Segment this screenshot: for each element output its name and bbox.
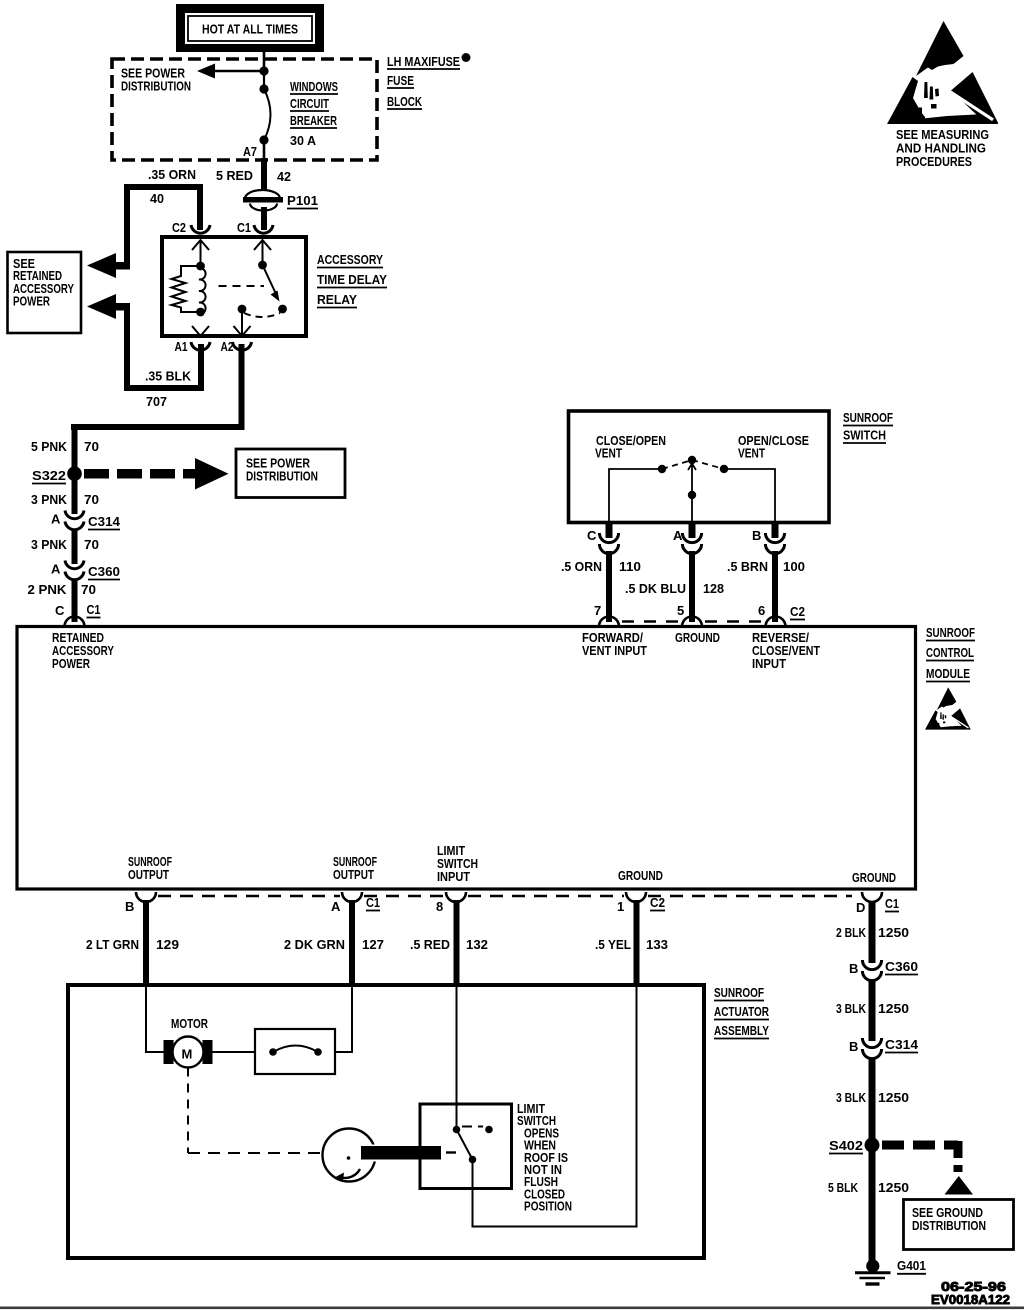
wire clutch to pin A <box>335 987 352 1052</box>
svg-text:7: 7 <box>594 603 601 618</box>
svg-text:1250: 1250 <box>878 1001 909 1016</box>
connector C360 (pink chain) <box>51 561 120 580</box>
svg-text:SWITCH: SWITCH <box>843 428 886 443</box>
fuse block box (dashed) <box>112 59 377 160</box>
svg-text:C2: C2 <box>650 895 665 910</box>
svg-text:C1: C1 <box>885 896 899 911</box>
svg-text:CIRCUIT: CIRCUIT <box>290 96 329 111</box>
sunroof control module box <box>17 627 916 890</box>
svg-text:.35 ORN: .35 ORN <box>148 167 196 182</box>
svg-text:8: 8 <box>436 899 443 914</box>
splice S402 <box>829 1138 880 1154</box>
svg-text:C2: C2 <box>790 604 805 619</box>
module pin 7 <box>594 603 619 627</box>
cam follower bar <box>361 1146 456 1160</box>
wire 3 PNK 70 (C314 to C360) <box>31 530 99 564</box>
svg-text:30 A: 30 A <box>290 133 317 148</box>
see power distribution arrow (top left) <box>121 64 264 94</box>
wire 2 LT GRN 129 <box>86 900 179 987</box>
svg-text:110: 110 <box>619 559 641 574</box>
svg-text:GROUND: GROUND <box>852 870 896 885</box>
svg-text:3 BLK: 3 BLK <box>836 1001 866 1016</box>
HOT AT ALL TIMES box <box>176 4 324 52</box>
module pin D / C1 <box>856 892 899 915</box>
svg-text:127: 127 <box>362 937 384 952</box>
connector C360 (black chain) <box>849 959 918 981</box>
module pin 5 <box>677 603 702 627</box>
sunroof switch box <box>569 411 830 523</box>
connector C314 (pink chain) <box>51 511 121 530</box>
wire P101 to relay C1 <box>261 207 267 230</box>
svg-text:B: B <box>752 528 761 543</box>
connector at switch pin A <box>673 522 702 554</box>
limit switch box <box>420 1104 512 1189</box>
svg-text:C: C <box>587 528 597 543</box>
connector C2 at relay <box>172 220 210 235</box>
svg-text:SUNROOF: SUNROOF <box>843 410 893 425</box>
module pin 8 <box>436 892 466 914</box>
ESD symbol (top right) <box>887 21 998 124</box>
svg-text:70: 70 <box>84 537 99 552</box>
svg-text:5: 5 <box>677 603 684 618</box>
svg-text:5 PNK: 5 PNK <box>31 439 68 454</box>
see retained accessory power box <box>8 252 82 333</box>
svg-text:OUTPUT: OUTPUT <box>333 867 374 882</box>
svg-text:A7: A7 <box>243 144 257 159</box>
connector C314 (black chain) <box>849 1037 919 1059</box>
svg-text:6: 6 <box>758 603 765 618</box>
wire pin B to motor <box>146 987 166 1052</box>
svg-text:C1: C1 <box>87 602 101 617</box>
svg-text:A2: A2 <box>221 339 234 354</box>
svg-text:EV0018A122: EV0018A122 <box>931 1292 1010 1307</box>
svg-text:POWER: POWER <box>52 656 90 671</box>
svg-text:POSITION: POSITION <box>524 1199 572 1214</box>
svg-text:B: B <box>125 899 134 914</box>
windows circuit breaker label <box>290 79 338 148</box>
wire .5 YEL 133 <box>595 900 668 987</box>
svg-text:A: A <box>331 899 341 914</box>
svg-text:BLOCK: BLOCK <box>387 94 422 109</box>
switch rocker contacts <box>658 456 728 521</box>
wire switch C leg <box>609 469 662 521</box>
wire limit switch to pin 1 <box>473 987 637 1227</box>
svg-text:70: 70 <box>84 439 99 454</box>
svg-text:PROCEDURES: PROCEDURES <box>896 154 972 169</box>
connector dashes on module top edge <box>622 620 764 623</box>
module label: retained accessory power <box>52 630 114 671</box>
svg-text:C1: C1 <box>366 895 380 910</box>
wire .35 ORN 40 (relay C2 feed) <box>124 167 203 266</box>
see measuring and handling procedures note <box>896 127 989 169</box>
wire pin 8 to limit switch <box>456 987 458 1130</box>
svg-text:DISTRIBUTION: DISTRIBUTION <box>246 469 318 484</box>
connector at switch pin C <box>587 522 619 554</box>
svg-text:133: 133 <box>646 937 668 952</box>
wire .5 RED 132 <box>410 900 488 987</box>
module label: reverse/close/vent input <box>752 630 820 671</box>
svg-text:SUNROOF: SUNROOF <box>714 985 764 1000</box>
svg-text:VENT: VENT <box>738 446 765 461</box>
svg-text:2 PNK: 2 PNK <box>28 582 68 597</box>
wire 2 BLK 1250 (pin D to C360) <box>836 901 909 963</box>
svg-text:.5 DK BLU: .5 DK BLU <box>625 581 686 596</box>
arrow to retained accessory power (upper) <box>87 253 130 278</box>
svg-text:.5 RED: .5 RED <box>410 937 450 952</box>
splice S322 <box>32 466 82 483</box>
wire 3 BLK 1250 (C314 to S402) <box>836 1057 909 1145</box>
svg-text:DISTRIBUTION: DISTRIBUTION <box>912 1218 986 1233</box>
svg-text:B: B <box>849 961 858 976</box>
wire 3 PNK 70 (S322 to C314) <box>31 474 99 514</box>
svg-text:1: 1 <box>617 899 624 914</box>
svg-text:ACTUATOR: ACTUATOR <box>714 1004 769 1019</box>
see power distribution box (right of S322) <box>236 449 345 498</box>
svg-text:VENT INPUT: VENT INPUT <box>582 643 647 658</box>
svg-text:FUSE: FUSE <box>387 73 414 88</box>
svg-text:INPUT: INPUT <box>752 656 786 671</box>
see ground distribution box <box>904 1200 1014 1250</box>
svg-text:70: 70 <box>84 492 99 507</box>
svg-text:A: A <box>51 562 61 577</box>
svg-text:.5 BRN: .5 BRN <box>727 559 768 574</box>
svg-text:GROUND: GROUND <box>675 630 720 645</box>
svg-text:5 RED: 5 RED <box>216 168 253 183</box>
svg-text:SUNROOF: SUNROOF <box>926 625 975 640</box>
wire .5 DK BLU 128 <box>625 551 724 623</box>
connector at switch pin B <box>752 522 785 554</box>
svg-text:C360: C360 <box>885 959 918 974</box>
mechanical link motor to cam (dashed) <box>188 1068 322 1154</box>
svg-text:GROUND: GROUND <box>618 868 663 883</box>
svg-text:1250: 1250 <box>878 925 909 940</box>
svg-text:B: B <box>849 1039 858 1054</box>
svg-text:C360: C360 <box>88 564 120 579</box>
wire .5 BRN 100 <box>727 551 805 623</box>
svg-text:2 LT GRN: 2 LT GRN <box>86 937 139 952</box>
wire 5 PNK 70 (A2 to S322) <box>31 344 245 474</box>
pass-through connector P101 <box>243 190 318 211</box>
motor M <box>164 1016 213 1068</box>
svg-text:2 BLK: 2 BLK <box>836 925 866 940</box>
module label: sunroof output (pin B) <box>128 854 172 882</box>
clutch switch box <box>255 1029 335 1074</box>
svg-text:WINDOWS: WINDOWS <box>290 79 338 94</box>
cam wheel <box>323 1129 380 1182</box>
svg-text:D: D <box>856 900 865 915</box>
wire .5 ORN 110 <box>561 551 641 623</box>
svg-text:C2: C2 <box>172 220 186 235</box>
svg-text:RELAY: RELAY <box>317 292 357 307</box>
svg-text:3 PNK: 3 PNK <box>31 492 68 507</box>
svg-text:C: C <box>55 603 65 618</box>
dashed link S402 to ground distribution <box>882 1141 973 1195</box>
svg-text:.35 BLK: .35 BLK <box>145 369 192 384</box>
wire 2 PNK 70 (C360 to module) <box>28 580 97 623</box>
relay coil branch (C2-A1) <box>172 240 210 336</box>
arrow to retained accessory power (lower) <box>87 294 130 319</box>
svg-text:C314: C314 <box>88 514 121 529</box>
connector dashes on module bottom edge <box>158 895 852 898</box>
svg-text:INPUT: INPUT <box>437 869 470 884</box>
module label: forward/vent input <box>582 630 647 658</box>
svg-text:POWER: POWER <box>13 294 50 309</box>
svg-text:C314: C314 <box>885 1037 919 1052</box>
svg-text:G401: G401 <box>897 1258 926 1273</box>
connector A2 <box>221 339 252 354</box>
module pin A / C1 <box>331 892 380 914</box>
svg-text:1250: 1250 <box>878 1090 909 1105</box>
sunroof switch label <box>843 410 893 443</box>
svg-text:70: 70 <box>81 582 96 597</box>
svg-text:.5 ORN: .5 ORN <box>561 559 602 574</box>
svg-text:ASSEMBLY: ASSEMBLY <box>714 1023 769 1038</box>
svg-text:129: 129 <box>156 937 179 952</box>
svg-text:MODULE: MODULE <box>926 666 970 681</box>
svg-text:VENT: VENT <box>595 446 622 461</box>
wire motor to clutch switch <box>213 1051 256 1053</box>
circuit breaker A7 (30A) <box>243 66 271 160</box>
LH maxifuse fuse block label <box>387 53 471 109</box>
svg-text:MOTOR: MOTOR <box>171 1016 208 1031</box>
svg-text:OUTPUT: OUTPUT <box>128 867 169 882</box>
svg-text:A: A <box>673 528 683 543</box>
svg-text:100: 100 <box>783 559 805 574</box>
sunroof actuator assembly label <box>714 985 769 1039</box>
svg-text:TIME DELAY: TIME DELAY <box>317 272 387 287</box>
svg-text:40: 40 <box>150 191 164 206</box>
svg-text:3 BLK: 3 BLK <box>836 1090 866 1105</box>
svg-text:C1: C1 <box>237 220 251 235</box>
svg-text:CONTROL: CONTROL <box>926 645 974 660</box>
svg-text:3 PNK: 3 PNK <box>31 537 68 552</box>
svg-text:DISTRIBUTION: DISTRIBUTION <box>121 79 191 94</box>
connector C1 at relay <box>237 220 273 235</box>
svg-text:.5 YEL: .5 YEL <box>595 937 631 952</box>
sunroof control module label <box>926 625 975 682</box>
wire 3 BLK 1250 (C360 to C314) <box>836 979 909 1041</box>
connector A1 <box>175 339 211 354</box>
wire 2 DK GRN 127 <box>284 900 384 987</box>
svg-text:BREAKER: BREAKER <box>290 113 337 128</box>
svg-text:1250: 1250 <box>878 1180 909 1195</box>
svg-text:A: A <box>51 512 61 527</box>
limit switch note text <box>517 1101 572 1214</box>
wire 5 BLK 1250 (S402 to G401) <box>828 1145 909 1261</box>
svg-text:HOT AT ALL TIMES: HOT AT ALL TIMES <box>202 22 298 37</box>
relay switch branch (C1-A2) <box>219 240 287 336</box>
dashed arrow S322 to see power distribution <box>84 458 229 490</box>
module pin 1 / C2 <box>617 892 665 914</box>
module label: sunroof output (pin A) <box>333 854 377 882</box>
svg-text:LH MAXIFUSE: LH MAXIFUSE <box>387 54 460 69</box>
module label: limit switch input <box>437 843 478 884</box>
page bottom rule <box>0 1307 1024 1310</box>
svg-text:132: 132 <box>466 937 488 952</box>
wire 5 RED 42 <box>216 158 291 194</box>
wire .35 BLK 707 <box>124 307 204 409</box>
wire from HOT box into fuse block <box>263 52 266 71</box>
ground G401 <box>855 1258 926 1284</box>
module pin C / C1 <box>55 602 101 627</box>
ESD symbol (module) <box>925 687 971 729</box>
module pin B <box>125 892 156 914</box>
module pin 6 / C2 <box>758 603 805 627</box>
wire switch B leg <box>724 469 775 521</box>
sunroof actuator assembly box <box>68 985 704 1258</box>
svg-text:S322: S322 <box>32 468 66 483</box>
svg-text:M: M <box>182 1047 193 1062</box>
svg-text:42: 42 <box>277 169 291 184</box>
svg-text:S402: S402 <box>829 1138 863 1153</box>
svg-text:P101: P101 <box>287 193 318 208</box>
svg-text:ACCESSORY: ACCESSORY <box>317 252 383 267</box>
svg-text:128: 128 <box>703 581 724 596</box>
accessory time delay relay box <box>162 237 387 336</box>
svg-text:2 DK GRN: 2 DK GRN <box>284 937 345 952</box>
svg-text:707: 707 <box>146 394 167 409</box>
svg-text:5 BLK: 5 BLK <box>828 1180 858 1195</box>
svg-text:A1: A1 <box>175 339 188 354</box>
